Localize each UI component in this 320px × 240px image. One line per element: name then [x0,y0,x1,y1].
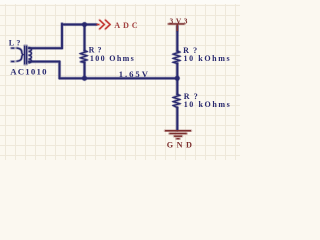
power port 3V3 [168,17,190,31]
wire transformer secondary top lead [29,47,62,49]
wire R1 bottom lead [84,63,86,79]
svg-text:L?: L? [9,38,23,47]
svg-text:10 kOhms: 10 kOhms [184,100,232,109]
wire R1 top lead [84,25,86,51]
wire bottom net 1.65V [60,77,178,79]
wire R3 to ground [176,108,178,131]
svg-text:10 kOhms: 10 kOhms [184,54,232,63]
svg-text:GND: GND [167,141,196,150]
port ADC off-sheet connector [97,20,141,30]
junction node bottom left [82,76,87,81]
junction node top [82,22,87,27]
wire R2 to node [176,64,178,95]
resistor R1 zigzag [81,51,87,63]
transformer L? symbol [11,46,31,65]
resistor R3 zigzag [173,94,179,107]
svg-text:1.65V: 1.65V [119,69,150,79]
resistor R2 zigzag [173,51,179,64]
ground GND symbol [165,131,191,139]
svg-text:AC1010: AC1010 [10,67,48,77]
wire top net to ADC [62,24,97,26]
svg-text:ADC: ADC [114,21,140,30]
sheet background [0,0,240,160]
wire transformer secondary bottom lead [29,61,60,63]
svg-text:100 Ohms: 100 Ohms [90,54,135,63]
wire vertical drop to bottom net [59,62,61,79]
junction node divider [175,76,180,81]
wire 3V3 stem to R2 [176,26,178,51]
wire glow underlay [11,20,191,139]
wire vertical left riser [61,24,63,49]
